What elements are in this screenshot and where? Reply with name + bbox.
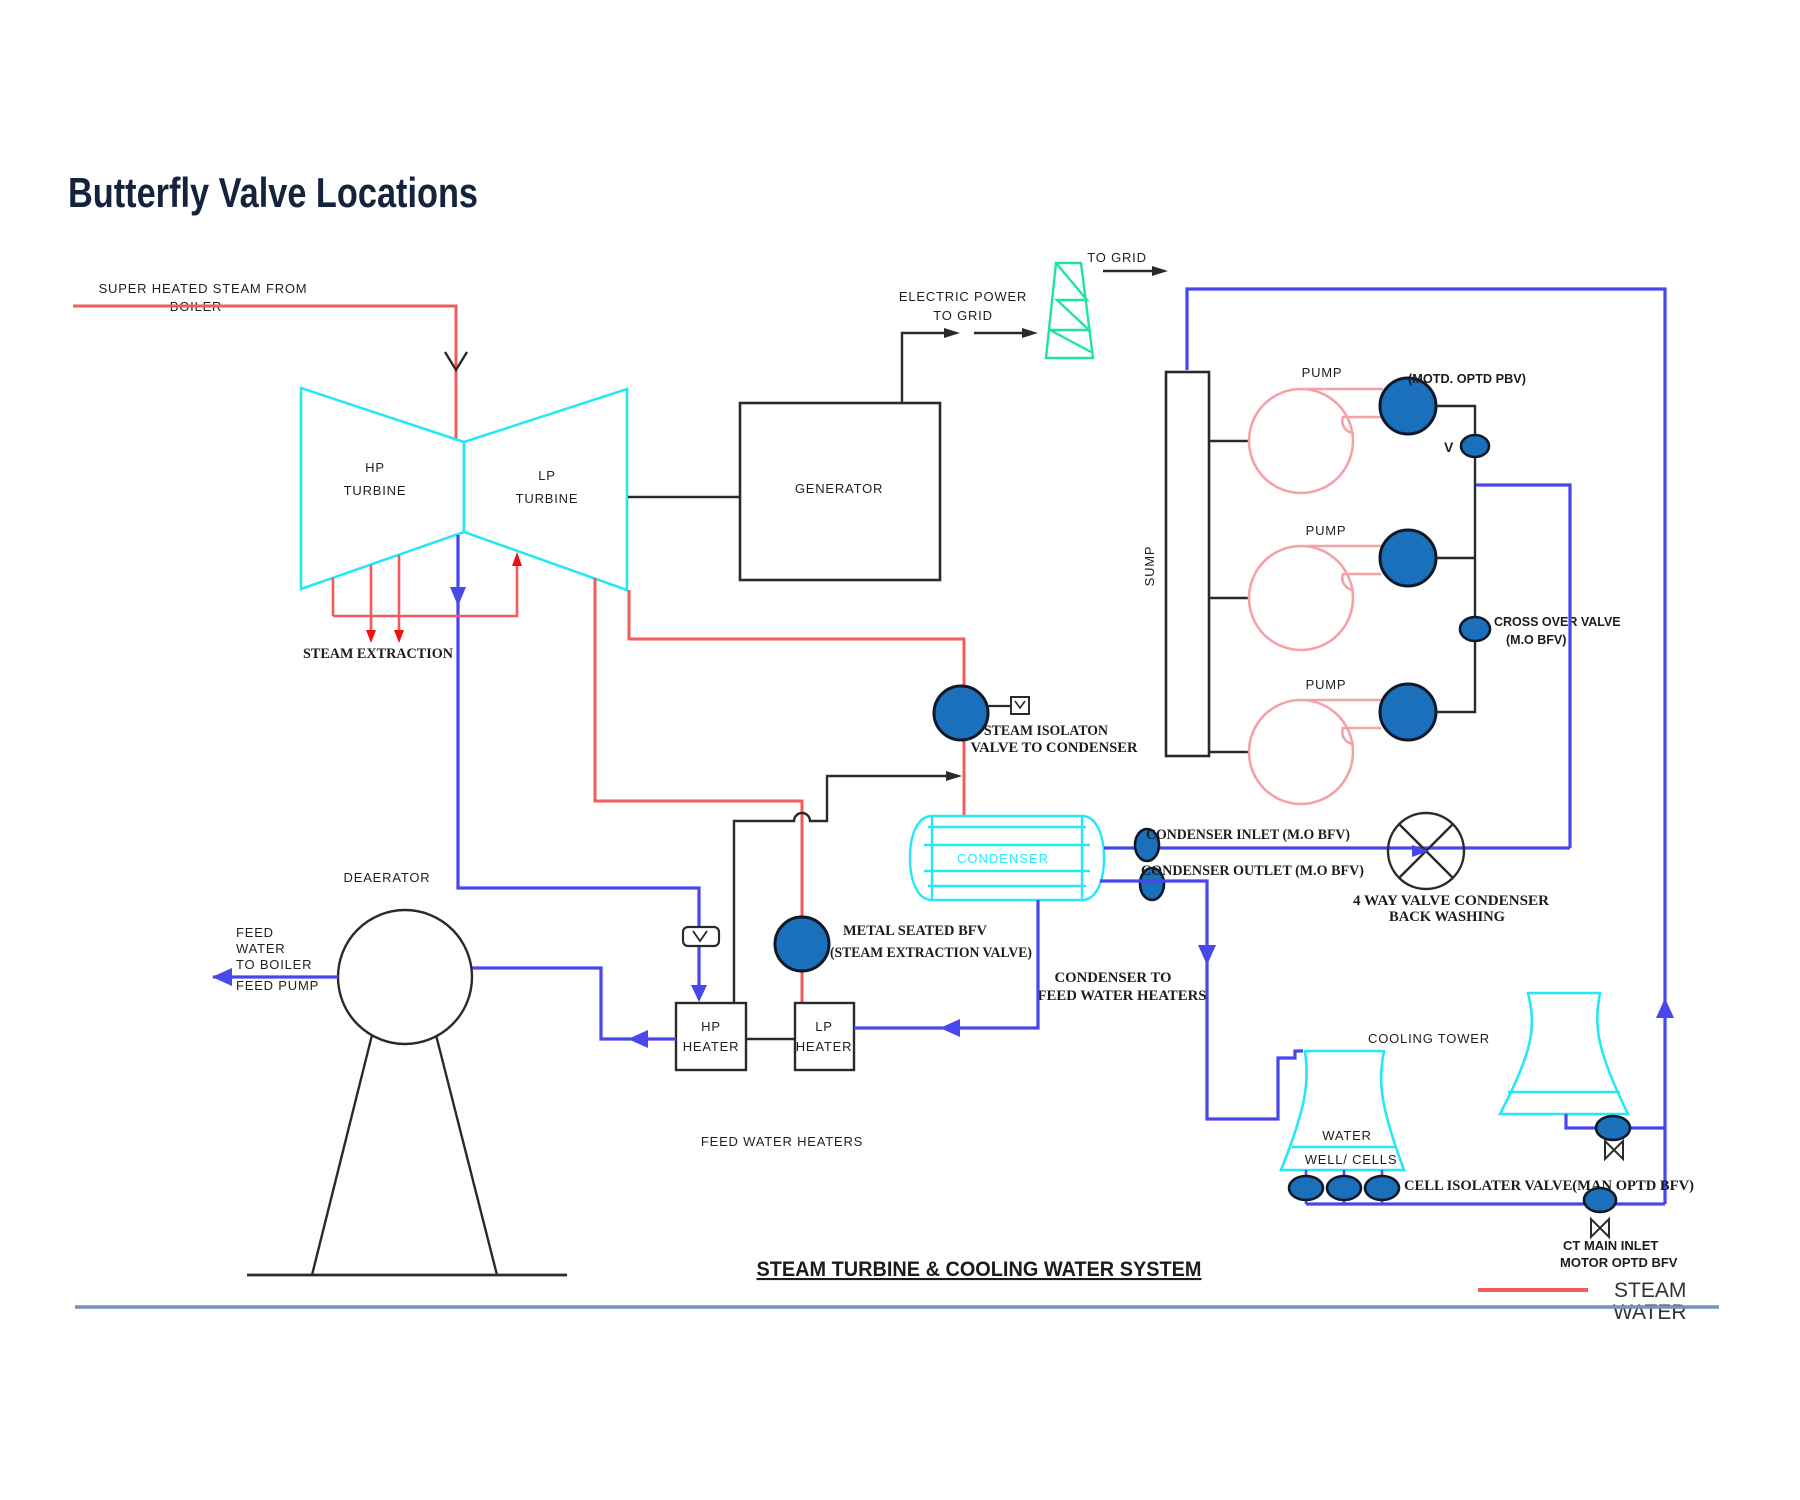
- arrowhead blue down into HP heater: [691, 985, 707, 1002]
- shaft wire turbine to generator: [628, 496, 740, 499]
- svg-text:(M.O BFV): (M.O BFV): [1506, 633, 1566, 647]
- cooling tower 1: [1281, 1051, 1404, 1170]
- condenser outlet valve: [1140, 868, 1164, 900]
- svg-text:LP: LP: [538, 468, 556, 483]
- svg-text:STEAM: STEAM: [1614, 1279, 1686, 1302]
- cross over valve: [1460, 617, 1490, 641]
- CT main inlet bowtie symbol: [1591, 1219, 1609, 1237]
- generator: [740, 403, 940, 580]
- svg-text:WELL/ CELLS: WELL/ CELLS: [1305, 1152, 1398, 1167]
- svg-text:FEED WATER HEATERS: FEED WATER HEATERS: [701, 1134, 863, 1149]
- wire: pump discharge header (black): [1436, 406, 1475, 712]
- cooling tower 2 outlet valve: [1596, 1116, 1630, 1140]
- wire: sump to pump 1: [1209, 440, 1250, 442]
- wire: sump to pump 2: [1209, 597, 1250, 599]
- svg-text:BACK WASHING: BACK WASHING: [1389, 909, 1505, 925]
- CT main inlet valve: [1584, 1188, 1616, 1212]
- svg-text:PUMP: PUMP: [1306, 523, 1347, 538]
- arrowhead blue up on right riser: [1656, 998, 1674, 1018]
- legend: steam: [1478, 1288, 1588, 1292]
- condenser: [910, 816, 1104, 900]
- svg-text:(STEAM EXTRACTION VALVE): (STEAM EXTRACTION VALVE): [830, 945, 1032, 961]
- svg-text:SUMP: SUMP: [1142, 546, 1157, 587]
- arrowhead blue down on outlet riser: [1198, 945, 1216, 965]
- svg-text:SUPER HEATED STEAM FROM: SUPER HEATED STEAM FROM: [99, 281, 308, 296]
- svg-text:Butterfly Valve Locations: Butterfly Valve Locations: [68, 169, 478, 216]
- svg-text:HP: HP: [365, 460, 385, 475]
- steam extraction stubs (red): [332, 578, 335, 616]
- valve box on HP heater feed line: [683, 927, 719, 946]
- wire: circulating water return to sump (blue, top loop): [1187, 289, 1665, 1204]
- svg-text:CROSS OVER VALVE: CROSS OVER VALVE: [1494, 615, 1621, 629]
- deaerator base: [247, 1274, 567, 1277]
- svg-text:TO GRID: TO GRID: [933, 308, 993, 323]
- LP turbine: [464, 389, 627, 590]
- svg-text:STEAM TURBINE & COOLING WATER: STEAM TURBINE & COOLING WATER SYSTEM: [757, 1258, 1202, 1281]
- red arrowhead up into LP turbine: [512, 552, 522, 566]
- svg-text:HEATER: HEATER: [683, 1039, 740, 1054]
- svg-text:4 WAY VALVE CONDENSER: 4 WAY VALVE CONDENSER: [1353, 893, 1549, 909]
- actuator stub + box: [988, 705, 1011, 707]
- steam extraction collector (red): [333, 556, 517, 616]
- wire: gland steam line (black) with hop over red line: [734, 776, 950, 1003]
- wire: electric power to grid (black): [902, 333, 952, 403]
- pump 2 motor (BFV): [1380, 530, 1436, 586]
- red arrowheads down: [366, 630, 376, 643]
- svg-text:STEAM ISOLATON: STEAM ISOLATON: [984, 723, 1108, 739]
- wire: sump to pump 3: [1209, 751, 1250, 753]
- wire: HP heater to deaerator (blue): [472, 968, 676, 1039]
- metal seated BFV (steam extraction valve): [775, 917, 829, 971]
- svg-text:(MOTD. OPTD PBV): (MOTD. OPTD PBV): [1408, 371, 1526, 386]
- HP turbine: [301, 388, 464, 589]
- svg-text:TO GRID: TO GRID: [1087, 250, 1147, 265]
- pump 1 (volute): [1249, 389, 1383, 493]
- svg-text:ELECTRIC POWER: ELECTRIC POWER: [899, 289, 1027, 304]
- svg-text:FEED WATER HEATERS: FEED WATER HEATERS: [1038, 988, 1207, 1004]
- svg-text:WATER: WATER: [1613, 1301, 1687, 1324]
- svg-text:GENERATOR: GENERATOR: [795, 481, 883, 496]
- bowtie under tower 2 valve: [1605, 1141, 1623, 1159]
- arrowhead blue down on exhaust line: [450, 587, 466, 606]
- LP heater: [795, 1003, 854, 1070]
- page bottom border: [75, 1305, 1719, 1308]
- svg-text:WATER: WATER: [236, 941, 286, 956]
- cooling tower 2: [1500, 993, 1628, 1114]
- svg-text:CONDENSER INLET (M.O BFV): CONDENSER INLET (M.O BFV): [1146, 827, 1350, 843]
- steam isolation valve to condenser: [934, 686, 988, 740]
- svg-text:STEAM EXTRACTION: STEAM EXTRACTION: [303, 646, 453, 662]
- arrowhead blue left: [940, 1019, 960, 1037]
- svg-text:COOLING TOWER: COOLING TOWER: [1368, 1031, 1490, 1046]
- arrowhead into HP turbine (black V): [445, 352, 467, 370]
- svg-text:CONDENSER OUTLET (M.O BFV): CONDENSER OUTLET (M.O BFV): [1141, 863, 1364, 879]
- wire: condenser inlet (blue): [1104, 846, 1570, 849]
- wire: condenser outlet to cooling tower (blue): [1100, 881, 1303, 1119]
- wire: steam from boiler (red): [73, 306, 456, 440]
- sump: [1166, 372, 1209, 756]
- svg-text:FEED PUMP: FEED PUMP: [236, 978, 319, 993]
- svg-text:METAL SEATED BFV: METAL SEATED BFV: [843, 923, 987, 939]
- svg-text:MOTOR OPTD BFV: MOTOR OPTD BFV: [1560, 1255, 1678, 1270]
- condenser inlet valve: [1135, 829, 1159, 861]
- wire: cooling tower 2 outlet (blue): [1566, 1114, 1665, 1128]
- pump 2 (volute): [1249, 546, 1383, 650]
- deaerator legs: [312, 1035, 372, 1275]
- cell isolator valves (3): [1305, 1170, 1308, 1204]
- transmission tower (grid): [1046, 263, 1093, 358]
- svg-text:HEATER: HEATER: [796, 1039, 853, 1054]
- svg-text:WATER: WATER: [1322, 1128, 1372, 1143]
- 4 way valve condenser back washing: [1388, 813, 1464, 889]
- svg-text:TURBINE: TURBINE: [516, 491, 579, 506]
- pump 1 motor (BFV): [1380, 378, 1436, 434]
- wire: cooling tower cells to main (blue): [1306, 1202, 1665, 1205]
- wire: crossover to 4-way valve (blue): [1476, 485, 1570, 848]
- svg-text:HP: HP: [701, 1019, 721, 1034]
- deaerator: [338, 910, 472, 1044]
- wire: LP turbine corner to condenser (red): [629, 590, 964, 816]
- svg-text:V: V: [1444, 439, 1454, 455]
- svg-text:VALVE TO CONDENSER: VALVE TO CONDENSER: [971, 740, 1138, 756]
- HP heater: [676, 1003, 746, 1070]
- pump 3 (volute): [1249, 700, 1383, 804]
- svg-text:CONDENSER TO: CONDENSER TO: [1055, 970, 1172, 986]
- pump 3 motor (BFV): [1380, 684, 1436, 740]
- wire: LP exhaust to feed heaters (blue): [458, 535, 699, 999]
- svg-text:CELL ISOLATER VALVE(MAN OPTD B: CELL ISOLATER VALVE(MAN OPTD BFV): [1404, 1178, 1694, 1194]
- arrowhead blue left: [628, 1030, 648, 1048]
- svg-text:CT MAIN INLET: CT MAIN INLET: [1563, 1238, 1658, 1253]
- svg-text:TURBINE: TURBINE: [344, 483, 407, 498]
- wire: condenser to LP heater (blue): [854, 900, 1038, 1028]
- svg-text:PUMP: PUMP: [1306, 677, 1347, 692]
- svg-text:PUMP: PUMP: [1302, 365, 1343, 380]
- svg-text:LP: LP: [815, 1019, 833, 1034]
- wire: feed water to boiler (blue): [213, 975, 338, 978]
- svg-text:FEED: FEED: [236, 925, 274, 940]
- valve V on header: [1461, 435, 1489, 457]
- wire: LP heater to HP heater (black): [746, 1038, 795, 1040]
- wire: LP extraction to LP heater (red): [595, 578, 802, 1003]
- svg-text:CONDENSER: CONDENSER: [957, 851, 1049, 866]
- svg-text:TO BOILER: TO BOILER: [236, 957, 312, 972]
- svg-text:DEAERATOR: DEAERATOR: [344, 870, 431, 885]
